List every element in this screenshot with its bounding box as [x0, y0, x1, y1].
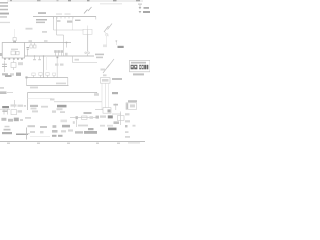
- inline component D4: [53, 75, 55, 77]
- wire corner feed low: [28, 91, 97, 93]
- net label dark: [118, 46, 124, 48]
- wire M2 pin 3: [108, 83, 110, 107]
- border frame top: [7, 0, 143, 2]
- wire drop mid: [56, 56, 58, 78]
- inductor L1: [16, 134, 28, 136]
- border frame bottom: [0, 141, 145, 143]
- bottom-left label row: [1, 118, 6, 121]
- value label above wire: [44, 40, 48, 42]
- net label with dash: [0, 91, 7, 94]
- junction block bottom center: [103, 108, 111, 114]
- wire drop from bus pin 3: [72, 17, 74, 30]
- wire bus end drop: [95, 17, 97, 20]
- bottom labels group 4: [100, 125, 105, 127]
- wire and parts row above bottom border: [84, 112, 92, 114]
- node label left edge: [0, 87, 4, 89]
- terminals T1 T2 T3 above wire: [55, 53, 57, 57]
- resistor R2: [11, 110, 17, 115]
- resistor R1: [13, 61, 15, 63]
- antenna symbol: [115, 40, 117, 45]
- control module U1 box: [2, 43, 24, 59]
- capacitor C1 inside U1: [11, 51, 15, 55]
- off-page arrow pair upper: [104, 26, 109, 32]
- relay K1: [87, 26, 89, 30]
- fuse F2 below wire: [34, 43, 36, 46]
- net name at wire end: [95, 54, 104, 56]
- label above wire: [30, 87, 38, 89]
- value label inside U1: [11, 49, 18, 50]
- wire corner right: [72, 56, 74, 63]
- label on wire: [65, 53, 68, 56]
- wire stub below junction: [66, 43, 68, 48]
- connector J2 stub: [26, 47, 29, 48]
- connector cross J3: [26, 128, 28, 140]
- fuse F1 below wire: [30, 43, 32, 46]
- wire end hook: [96, 92, 98, 95]
- wire below U1 pin A: [4, 61, 6, 73]
- switch S1 faint: [106, 34, 108, 36]
- label right of M2: [112, 78, 122, 80]
- label above: [75, 59, 80, 61]
- label row under components: [2, 73, 8, 75]
- inline component D1: [33, 75, 35, 78]
- wire drop short: [46, 56, 48, 70]
- legend symbol ground G1: [138, 4, 142, 5]
- wire drop long: [43, 56, 45, 78]
- label below title box: [133, 73, 144, 75]
- harness left nub: [25, 77, 27, 79]
- faint second wire: [28, 98, 52, 100]
- capacitor C4 stub: [34, 56, 36, 59]
- bottom-right tiny marks: [125, 125, 128, 127]
- wire relay coil down: [87, 34, 89, 51]
- capacitor C2 inside U1: [16, 51, 19, 54]
- wire along box top extended: [25, 42, 72, 44]
- label bottom dark: [108, 115, 113, 118]
- pin stubs under U1: [4, 58, 6, 59]
- bottom-left relay block: [14, 100, 16, 108]
- inline fuse F3: [82, 116, 88, 119]
- bottom labels group 2: [53, 125, 57, 128]
- wire M2 pin 2: [104, 83, 106, 108]
- part number dark: [131, 65, 149, 70]
- inline component D3: [47, 75, 49, 78]
- label center-low: [30, 105, 38, 107]
- label cluster center: [57, 105, 67, 108]
- bottom labels group 1: [28, 125, 36, 127]
- junction node: [34, 55, 36, 57]
- wire drop from bus pin 2: [56, 17, 58, 36]
- label left edge: [0, 53, 2, 56]
- label top-left of harness: [5, 75, 12, 77]
- off-page arrow pair lower: [103, 65, 110, 74]
- label near wire: [26, 28, 33, 30]
- node dot: [57, 57, 59, 59]
- capacitor C5 stub: [39, 56, 41, 59]
- net label mid right: [112, 92, 118, 94]
- capacitor C6: [3, 109, 5, 114]
- wire down right: [120, 112, 122, 126]
- value label: [18, 62, 23, 65]
- harness pair lower wire: [27, 85, 69, 87]
- harness right end: [67, 78, 69, 86]
- junction node: [43, 55, 45, 57]
- wire stub dark: [75, 20, 81, 21]
- bottom-left note list: [5, 126, 10, 128]
- terminal T4: [115, 104, 117, 110]
- net label above lower wire: [56, 83, 66, 85]
- net label under bus: [36, 19, 47, 21]
- inline component D2: [40, 75, 42, 78]
- connector block right: [128, 100, 137, 102]
- wire M2 pin 1: [101, 83, 103, 110]
- harness pair upper wire: [27, 77, 69, 79]
- node label FEED BUS: [38, 12, 46, 14]
- pin ticks on bus: [53, 17, 55, 19]
- connector pins P1 P2: [85, 52, 87, 54]
- junction node: [66, 42, 68, 44]
- capacitor C3 plates: [2, 63, 7, 66]
- connector J1 above box: [14, 29, 16, 38]
- title box: [130, 60, 151, 72]
- value labels above bus: [56, 13, 62, 14]
- wire jog: [57, 34, 64, 36]
- wire main feed: [25, 55, 94, 57]
- module M2 box: [101, 78, 111, 84]
- connector shell: [16, 73, 21, 76]
- wire bottom feed: [54, 101, 102, 103]
- wire bus B+: [33, 16, 96, 18]
- legend symbol ground G2: [139, 11, 142, 13]
- wire drop from bus pin 1: [53, 17, 55, 31]
- connector pin: [76, 116, 78, 119]
- harness left end: [26, 78, 28, 86]
- value labels: [55, 64, 59, 66]
- wire horizontal to relay K1: [54, 29, 84, 31]
- reference flag arrows: [84, 10, 88, 14]
- bottom labels group 3: [78, 125, 88, 127]
- notes text block top-left: [0, 2, 8, 4]
